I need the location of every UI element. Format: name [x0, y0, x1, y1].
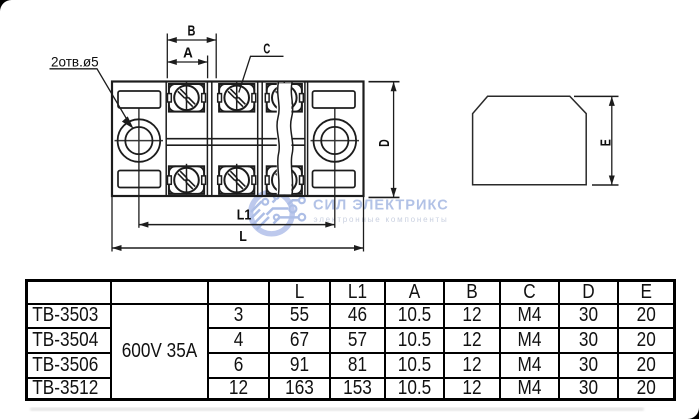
2otv leader arrowhead [122, 116, 134, 128]
C leader [239, 56, 284, 92]
D extension lines [369, 81, 400, 83]
black page corner top-left [0, 0, 12, 11]
break gap white-out [277, 83, 292, 194]
B arrows [167, 37, 177, 43]
arrowheads [112, 37, 397, 251]
2otv leader line [50, 69, 131, 126]
left end wall [165, 82, 167, 197]
right end wall [304, 82, 306, 197]
left mounting hole [118, 119, 161, 162]
L1 dimension line [139, 224, 335, 226]
screw t2 top [218, 82, 256, 113]
svg-text:L1: L1 [237, 206, 252, 223]
break wavy line right [291, 82, 293, 197]
data table [25, 279, 676, 401]
A right extension line [207, 56, 209, 79]
E extension lines [574, 95, 619, 97]
watermark logo pads [262, 194, 305, 221]
screw t2 bottom [218, 164, 256, 195]
wall between t1 t2 [206, 82, 208, 197]
svg-text:электронные компоненты: электронные компоненты [314, 215, 449, 224]
E dimension line [611, 96, 613, 185]
L1 extension lines [138, 170, 140, 228]
right mounting hole [314, 119, 357, 162]
screw t3 top [265, 82, 303, 113]
watermark logo traces [250, 200, 299, 230]
svg-text:C: C [263, 40, 270, 57]
svg-text:D: D [376, 139, 393, 147]
L extension lines [111, 196, 113, 252]
E arrows [609, 96, 615, 106]
channel lines [166, 138, 305, 140]
D dimension line [393, 82, 395, 198]
black page corner bottom-right [688, 408, 699, 419]
screw t3 bottom [265, 164, 303, 195]
left mounting hole centerlines [115, 108, 360, 171]
svg-text:2отв.ø5: 2отв.ø5 [51, 55, 99, 70]
A arrows [167, 59, 177, 65]
right slots [313, 91, 356, 108]
L arrows [112, 245, 122, 251]
svg-text:A: A [183, 44, 193, 61]
B dimension line [167, 39, 216, 41]
screw t1 top [168, 82, 206, 113]
left slots [118, 91, 161, 108]
break wavy line left [277, 82, 279, 197]
side view body [473, 96, 587, 185]
wall between t2 t3 [257, 82, 259, 197]
svg-text:СИЛ ЭЛЕКТРИКС: СИЛ ЭЛЕКТРИКС [313, 197, 449, 213]
L1 arrows [139, 222, 149, 228]
dimension labels [183, 23, 614, 245]
B extension lines [166, 34, 168, 79]
shadow streak below table [30, 408, 644, 411]
screw t1 bottom [168, 164, 206, 195]
svg-text:B: B [187, 23, 195, 40]
outer body rectangle [112, 82, 364, 197]
A dimension line [167, 61, 207, 63]
L dimension line [112, 247, 364, 249]
D arrows [391, 82, 397, 92]
svg-text:L: L [239, 228, 247, 245]
watermark logo circuit ring [250, 192, 449, 234]
